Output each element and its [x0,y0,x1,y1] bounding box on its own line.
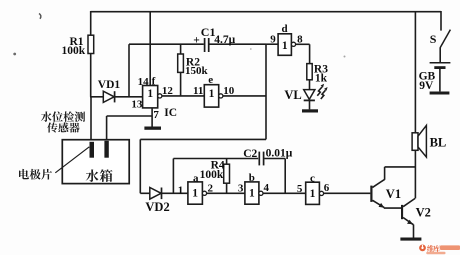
svg-text:1: 1 [209,88,215,100]
svg-text:e: e [208,74,213,86]
svg-text:C1: C1 [201,25,216,39]
svg-text:2: 2 [208,182,214,194]
svg-text:10: 10 [223,85,235,97]
svg-text:1: 1 [192,188,198,200]
svg-text:5: 5 [297,183,303,195]
svg-text:8: 8 [297,33,303,45]
svg-text:IC: IC [164,107,177,119]
svg-text:4: 4 [264,182,270,194]
svg-text:100k: 100k [62,45,86,57]
svg-text:V2: V2 [416,205,431,219]
svg-text:3: 3 [238,182,244,194]
svg-text:V1: V1 [386,187,401,201]
svg-text:C2: C2 [243,148,257,160]
svg-text:6: 6 [324,182,330,194]
svg-text:1: 1 [147,88,153,100]
svg-text:d: d [282,23,288,35]
svg-text:+: + [193,35,200,47]
svg-text:1: 1 [249,188,255,200]
svg-text:a: a [193,172,199,184]
svg-text:S: S [430,32,437,46]
svg-text:14: 14 [138,76,150,88]
svg-text:9V: 9V [419,80,434,92]
svg-text:12: 12 [162,85,174,97]
svg-text:VD1: VD1 [98,79,121,91]
svg-text:9: 9 [270,33,276,45]
svg-text:150k: 150k [185,65,209,77]
svg-text:f: f [152,76,156,88]
svg-text:11: 11 [193,85,203,97]
svg-text:0.01μ: 0.01μ [266,147,293,159]
svg-text:4.7μ: 4.7μ [214,34,235,46]
svg-text:1: 1 [310,188,316,200]
svg-text:BL: BL [430,136,447,150]
svg-text:VL: VL [284,88,301,102]
svg-text:100k: 100k [200,169,224,181]
svg-text:7: 7 [153,109,159,121]
svg-text:1k: 1k [315,72,328,84]
svg-text:b: b [249,172,255,184]
svg-text:1: 1 [282,40,288,52]
svg-text:VD2: VD2 [145,200,169,214]
svg-text:c: c [310,172,315,184]
svg-text:1: 1 [178,185,184,197]
svg-text:13: 13 [131,99,143,111]
